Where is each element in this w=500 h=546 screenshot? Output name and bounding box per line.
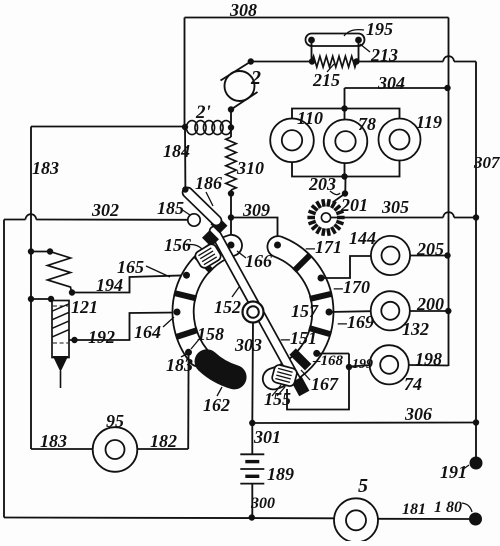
svg-text:213: 213 [370, 45, 398, 65]
terminal dot 191 [470, 457, 483, 470]
wire vertical right-inner (304/205/200/198 bus) [448, 18, 450, 367]
wire 182 [137, 448, 188, 450]
junction dot left bus lower [28, 296, 34, 302]
wire to left resistor [31, 251, 50, 253]
contact dot 165 [183, 272, 190, 279]
lever 186 [181, 185, 224, 227]
terminal dot 195 left [308, 37, 315, 44]
relay 78 [324, 120, 368, 164]
meter 95 [93, 427, 138, 472]
stub 195 right [358, 40, 360, 62]
contact dot 171 cap [274, 242, 281, 249]
wire 302 with hop [4, 219, 26, 221]
cam wheel 2 [225, 71, 255, 101]
wire 308 top [185, 17, 449, 19]
battery 189 [240, 453, 264, 455]
wire 300 [251, 484, 253, 518]
svg-text:78: 78 [358, 114, 376, 134]
wire 307 right vertical [475, 62, 477, 458]
junction dot 300 [249, 514, 255, 520]
svg-text:305: 305 [381, 197, 409, 217]
junction dot 306 left [249, 420, 255, 426]
wire 194 [72, 275, 187, 292]
inductor coil 2prime [185, 126, 188, 128]
brush 156 [194, 242, 223, 269]
stub 195 left [311, 40, 313, 62]
junction dot 203 [342, 190, 348, 196]
junction dot rail bottom [341, 173, 347, 179]
junction dot 306 right [473, 419, 479, 425]
terminal dot 180 [469, 513, 482, 526]
tangent line lower of wheel 2 [231, 92, 258, 110]
svg-text:–170: –170 [333, 277, 370, 297]
lamp top rail [292, 109, 400, 119]
stub 78 bottom [344, 163, 346, 177]
left resistor zigzag [48, 252, 72, 293]
relay 198-74 [370, 345, 409, 384]
svg-text:191: 191 [440, 462, 467, 482]
arm insulator block upper [211, 217, 228, 234]
terminal dot 213 right [353, 58, 359, 64]
ring tick right c [309, 328, 331, 334]
svg-text:201: 201 [340, 195, 368, 215]
svg-text:302: 302 [91, 200, 119, 220]
terminal dot resistor bottom [69, 289, 75, 295]
ring left band [183, 246, 231, 357]
junction dot 200 [445, 308, 451, 314]
wire 304 [345, 87, 449, 89]
thermostat tube 121 [52, 301, 69, 358]
svg-text:2: 2 [250, 67, 261, 89]
svg-text:304: 304 [377, 73, 405, 93]
junction dot 309 [228, 214, 234, 220]
wire 181 [378, 518, 470, 520]
brush box wires [287, 354, 349, 410]
lamp bottom rail [292, 161, 400, 177]
svg-text:307: 307 [473, 153, 500, 172]
svg-text:303: 303 [234, 335, 262, 355]
junction dot tube side [71, 337, 77, 343]
svg-text:132: 132 [402, 319, 429, 339]
wire 309 [231, 218, 278, 246]
resistor 310 [226, 137, 236, 190]
svg-text:205: 205 [416, 239, 444, 259]
ratchet wheel 201 [337, 216, 345, 220]
wire to resistor 213 left [251, 61, 312, 63]
contact dot 170 [318, 275, 325, 282]
tube needle [60, 371, 62, 388]
junction dot left bus upper [28, 248, 34, 254]
ring right band [273, 247, 322, 379]
slider bar 195 [306, 34, 365, 47]
contact dot 168 [313, 350, 320, 357]
svg-text:164: 164 [134, 322, 161, 342]
svg-text:300: 300 [250, 495, 275, 512]
contact dot 169 [326, 309, 333, 316]
svg-text:183: 183 [40, 431, 67, 451]
svg-text:181: 181 [402, 501, 426, 518]
svg-text:203: 203 [308, 174, 336, 194]
resistor 213 [312, 56, 357, 67]
wire wheel2 to coil [230, 110, 232, 138]
svg-text:1 80: 1 80 [434, 499, 462, 516]
bottom wire [4, 517, 334, 520]
svg-text:166: 166 [245, 251, 272, 271]
svg-text:310: 310 [236, 158, 264, 178]
wire to tube 121 [31, 298, 54, 300]
wire 305 with hop [330, 217, 443, 219]
svg-text:215: 215 [312, 70, 340, 90]
svg-text:119: 119 [416, 112, 442, 132]
junction dot 205 [444, 252, 450, 258]
lever tip dot [182, 186, 188, 192]
svg-text:189: 189 [267, 464, 294, 484]
relay 119 [379, 119, 421, 161]
terminal dot 195 right [355, 37, 362, 44]
terminal dot 310 bottom [228, 190, 234, 196]
svg-text:186: 186 [195, 173, 222, 193]
wire 183 left vertical [30, 127, 32, 450]
svg-text:–171: –171 [305, 237, 342, 257]
contact dot 183mid [185, 349, 192, 356]
svg-text:158: 158 [197, 324, 224, 344]
svg-text:182: 182 [150, 431, 177, 451]
wire 302 left end vertical [3, 220, 5, 518]
junction dot 305-307 [473, 214, 479, 220]
svg-text:165: 165 [117, 257, 144, 277]
junction dot 199 [346, 364, 352, 370]
svg-text:95: 95 [106, 411, 124, 431]
ring tick left b [174, 293, 196, 298]
brush 155 [271, 364, 298, 387]
terminal dot left resistor [47, 248, 53, 254]
svg-text:5: 5 [358, 475, 368, 497]
wire 306 [252, 422, 476, 425]
arm black tip [292, 377, 310, 397]
svg-text:200: 200 [416, 294, 444, 314]
ring tick left c [176, 330, 198, 337]
svg-text:194: 194 [96, 275, 123, 295]
svg-text:192: 192 [88, 327, 115, 347]
svg-text:157: 157 [291, 301, 319, 321]
junction dot tube top [48, 296, 54, 302]
relay 144-205 [371, 236, 410, 275]
ring segment 167 black [293, 352, 309, 368]
svg-text:152: 152 [214, 297, 241, 317]
wire 184 vertical to lever [184, 127, 186, 190]
wire 199 to relay 74 [349, 365, 370, 366]
wire 182-183 bottom left [31, 448, 93, 450]
junction dot rail top [341, 105, 347, 111]
wire 169 to relay 200 [329, 310, 371, 313]
svg-text:–168: –168 [312, 353, 344, 369]
contact dot 164 [174, 309, 181, 316]
contact dot 166 cap [228, 242, 235, 249]
wire from resistor 213 right [357, 61, 444, 63]
ring tick right b [310, 294, 332, 299]
ring black end 162 [207, 362, 235, 378]
wire 183 horizontal top [31, 126, 185, 128]
junction dot coil right [228, 124, 234, 130]
ring tick right a [294, 255, 310, 271]
wire 168 to box [317, 353, 349, 355]
wire 170 to relay 144 [321, 256, 371, 278]
svg-text:308: 308 [229, 0, 257, 20]
svg-text:185: 185 [157, 198, 184, 218]
relay 110 [270, 119, 314, 163]
ring tick left a [195, 255, 211, 271]
svg-text:162: 162 [203, 395, 230, 415]
svg-text:167: 167 [311, 374, 339, 394]
tangent line upper of wheel 2 [221, 62, 251, 81]
stub 78 top [344, 109, 346, 121]
wire 203 [344, 177, 346, 193]
wire 301 [251, 423, 253, 454]
svg-text:–151: –151 [280, 328, 317, 348]
svg-text:74: 74 [404, 374, 422, 394]
svg-text:306: 306 [404, 404, 432, 424]
svg-text:309: 309 [242, 200, 270, 220]
svg-text:110: 110 [297, 108, 323, 128]
wire 192 [69, 313, 177, 341]
svg-text:–169: –169 [337, 312, 374, 332]
svg-text:144: 144 [349, 228, 376, 248]
svg-text:195: 195 [366, 19, 393, 39]
svg-text:301: 301 [253, 427, 281, 447]
wire 310 to cap [230, 190, 232, 245]
svg-text:183: 183 [32, 158, 59, 178]
arm insulator block lower [202, 230, 219, 247]
wire 303 [251, 323, 254, 424]
junction dot coil left [182, 124, 188, 130]
wire 184 left vertical from 308 [184, 18, 186, 128]
node dot at 2 tangent [248, 58, 254, 64]
pivot outer [243, 302, 264, 323]
svg-text:198: 198 [415, 349, 442, 369]
key 5 [334, 498, 378, 542]
vertical 304 to rail [344, 88, 346, 109]
svg-text:155: 155 [264, 389, 291, 409]
pivot inner [247, 306, 259, 318]
junction dot 304 bus [444, 85, 450, 91]
wire 205 [410, 255, 447, 257]
wire hop over bus [443, 56, 454, 61]
contact button 185 [188, 214, 200, 226]
wire 200 [410, 310, 448, 312]
svg-text:121: 121 [71, 297, 98, 317]
wire 198 [409, 364, 449, 367]
switch arm 152 [208, 225, 303, 387]
wire to 307 corner [454, 61, 476, 63]
relay 200-132 [371, 291, 410, 330]
terminal dot 213 left [309, 58, 315, 64]
node dot below wheel 2 [228, 106, 234, 112]
wire 183 vertical to bottom [187, 353, 189, 450]
svg-text:183: 183 [166, 355, 193, 375]
